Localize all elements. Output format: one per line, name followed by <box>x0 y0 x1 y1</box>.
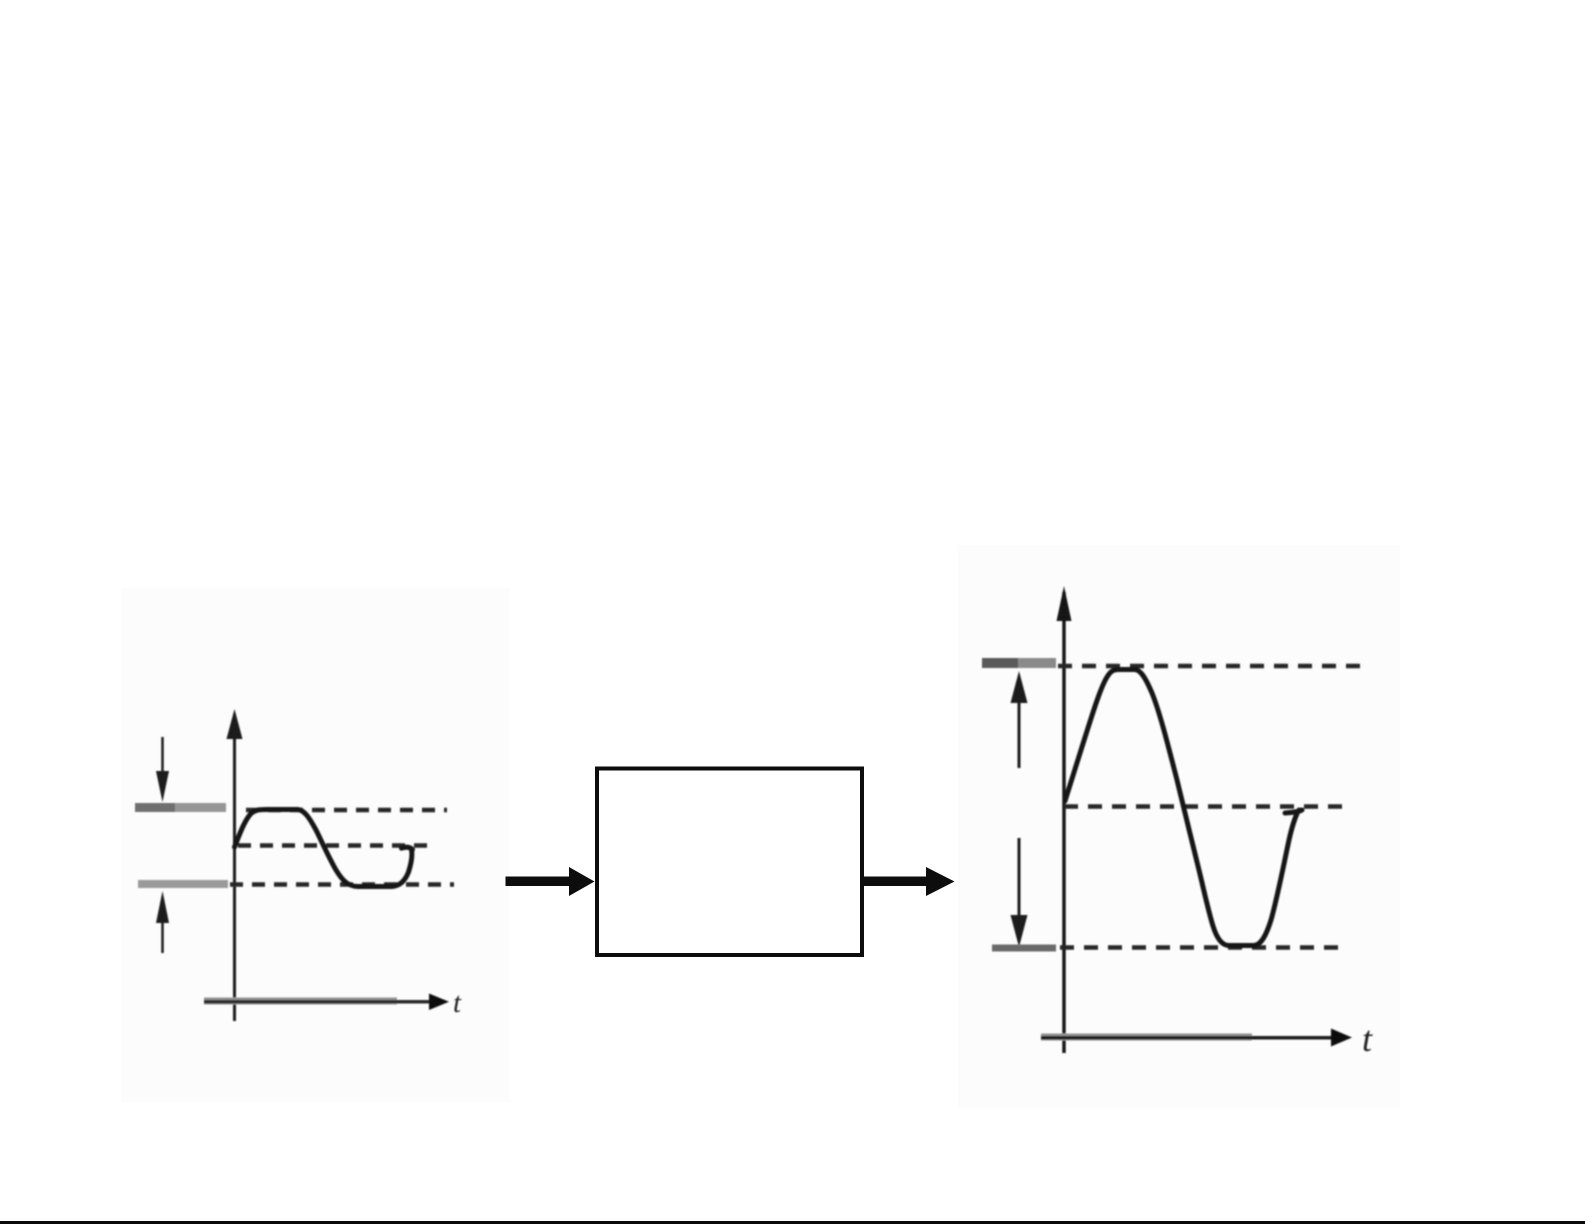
output graph horizontal axis <box>1041 1029 1352 1047</box>
output trough dimension arrow <box>1011 838 1028 947</box>
input peak dimension arrow <box>156 737 169 802</box>
input trough level marker bar <box>138 880 228 888</box>
output sine waveform <box>1065 670 1299 946</box>
output arrow from amplifier <box>864 867 955 896</box>
input trough dashed line <box>230 882 454 887</box>
output peak dimension arrow <box>1011 671 1028 768</box>
input arrow into amplifier <box>506 867 595 896</box>
svg-text:t: t <box>453 987 462 1019</box>
input midline dashed line <box>238 843 431 848</box>
page footer rule <box>0 1221 1585 1224</box>
output sine end hook cap <box>1285 810 1302 813</box>
output trough dashed line <box>1060 945 1348 950</box>
output peak dashed line <box>1058 664 1360 669</box>
input sine waveform <box>235 810 412 887</box>
svg-text:t: t <box>1362 1019 1373 1059</box>
input graph vertical axis <box>227 709 243 1021</box>
input peak dashed line <box>246 808 447 813</box>
input sine end hook cap <box>402 847 413 849</box>
output trough level marker bar <box>992 945 1056 952</box>
input graph horizontal axis <box>204 994 449 1011</box>
input scan background <box>121 588 510 1102</box>
amplifier block <box>597 769 862 956</box>
input peak level marker bar <box>135 803 226 812</box>
input trough dimension arrow <box>156 891 169 953</box>
output midline dashed line <box>1064 804 1344 809</box>
output scan background <box>958 545 1400 1108</box>
output peak level marker bar <box>982 658 1056 668</box>
output graph vertical axis <box>1057 586 1072 1053</box>
